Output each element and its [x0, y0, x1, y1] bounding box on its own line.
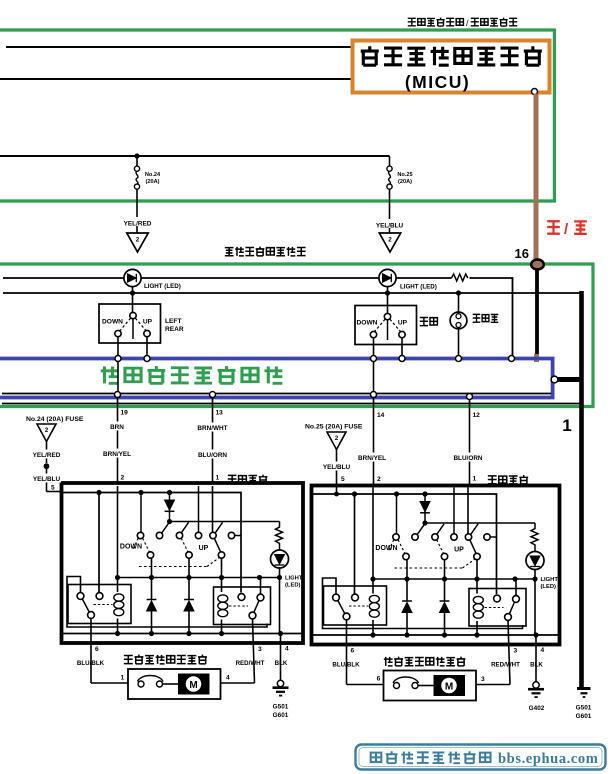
right-rear motor circuit breaker — [394, 683, 400, 689]
junction node at fuse No.24 — [134, 153, 139, 158]
svg-text:G601: G601 — [273, 712, 289, 719]
left-rear motor feed wire right — [221, 682, 255, 684]
left-rear UP relay NO contact — [238, 594, 245, 601]
svg-text:DOWN: DOWN — [357, 320, 378, 327]
svg-text:YEL/BLU: YEL/BLU — [376, 223, 404, 230]
wire 14 BRN/YEL — [373, 398, 375, 487]
left-rear switch contacts upper row — [137, 532, 143, 538]
right-rear relay feed wire — [354, 494, 356, 594]
left-rear DOWN contact — [115, 330, 121, 336]
svg-text:12: 12 — [473, 412, 481, 419]
left-rear ground wire BLK — [280, 644, 282, 681]
svg-text:1: 1 — [473, 476, 477, 483]
green box (under-dash fuse/relay box) top edge — [0, 28, 556, 31]
left-rear switch arm c2 — [162, 522, 170, 533]
right-rear switch name 右后开关 — [488, 476, 497, 484]
right-rear UP relay NC contact — [513, 596, 520, 603]
fuse/relay box label 仪表板下保险丝/继电器盒 — [408, 18, 416, 26]
left-rear motor symbol — [178, 674, 210, 695]
svg-text:6: 6 — [95, 646, 99, 653]
svg-text:LEFT: LEFT — [165, 318, 181, 325]
svg-text:6: 6 — [377, 676, 381, 683]
MICU box (orange) — [353, 41, 550, 93]
right-rear DOWN relay NC contact — [333, 594, 340, 601]
right-rear switch arm c2 — [417, 524, 425, 535]
right-rear bus junction (contact c1 feed) — [394, 491, 399, 496]
fuse No.24 (20A) — [136, 156, 138, 166]
wire 12 color BLU/ORN — [451, 453, 488, 462]
left-rear switch common contact — [130, 312, 136, 318]
left-rear internal supply bus — [62, 493, 242, 593]
right-rear pin1 wire to switch — [467, 488, 469, 534]
right-rear switch pole — [387, 320, 389, 340]
svg-text:UP: UP — [398, 320, 408, 327]
svg-text:RED/WHT: RED/WHT — [491, 662, 520, 669]
junction LED2/line B — [385, 290, 390, 295]
left-rear switch arm c5 to lower contact — [214, 538, 220, 552]
multiplex unit label 车门多路控制装置 (green) — [101, 367, 119, 384]
right-rear wire lower c1 to diode — [406, 560, 408, 601]
master switch green box top edge — [0, 262, 595, 265]
svg-text:(MICU): (MICU) — [405, 72, 470, 92]
svg-text:5: 5 — [341, 476, 345, 483]
right-rear UP contact — [399, 331, 405, 337]
left-rear switch name 左后开关 — [228, 475, 237, 483]
svg-text:13: 13 — [216, 410, 224, 417]
bus wire to MICU pin 1 (top) — [6, 46, 353, 48]
right-rear UP relay NC riser — [515, 579, 517, 596]
left-rear contact c4 riser — [198, 486, 200, 532]
right-rear DOWN relay linkage dash — [349, 605, 368, 607]
wire YEL/RED from fuse No.24 down to master switch connector — [136, 199, 138, 233]
wire 13 color BRN/WHT — [194, 423, 232, 432]
MICU pin (top-left lower) — [352, 76, 358, 82]
right-rear diode 2 — [440, 600, 450, 602]
svg-text:BRN/WHT: BRN/WHT — [197, 425, 227, 432]
black bus below multiplex bottom edge — [2, 403, 582, 405]
right-rear UP relay NO contact — [494, 595, 501, 602]
right-rear switch contacts lower row — [403, 553, 409, 559]
master switch label 电动车窗主控开关 — [225, 248, 234, 256]
brown highlighted wire from MICU pin 16 — [534, 94, 539, 262]
left-rear wire LED to lamp bus — [279, 568, 281, 578]
right-rear NC contact loop wire — [323, 578, 523, 629]
right-rear DOWN relay arm — [338, 600, 345, 613]
svg-text:BRN/YEL: BRN/YEL — [358, 455, 386, 462]
left-rear UP relay common contact — [249, 612, 256, 619]
right-rear motor feed wire right — [476, 684, 510, 686]
svg-text:LIGHT (LED): LIGHT (LED) — [400, 284, 437, 291]
right-rear contact c1 riser — [396, 494, 398, 534]
master switch green box right edge — [591, 264, 594, 407]
wire YEL/BLU from fuse No.25 down — [389, 199, 391, 233]
wire color label YEL/BLU — [374, 219, 405, 228]
multiplex bottom pin 13 — [210, 392, 216, 398]
svg-text:LIGHT: LIGHT — [285, 576, 303, 582]
left-rear switch pole — [132, 319, 134, 339]
wire left-rear UP contact to multiplex — [146, 337, 148, 356]
right-rear pin2 coil wire — [372, 488, 374, 578]
left-rear motor UP output wire (pin 3) — [253, 619, 255, 683]
svg-text:DOWN: DOWN — [375, 545, 397, 552]
right-rear DOWN contact — [370, 331, 376, 337]
svg-text:2: 2 — [121, 475, 125, 482]
left-rear switch throw dashes — [120, 318, 131, 330]
left-rear motor circuit breaker — [138, 681, 144, 687]
wire 13 color BLU/ORN — [195, 450, 232, 459]
svg-text:RED/WHT: RED/WHT — [236, 660, 265, 667]
left-rear UP contact — [144, 330, 150, 336]
right-rear switch stub c6 — [490, 536, 496, 538]
left-rear contact c1 riser — [140, 493, 142, 533]
left-rear wire lower c2 to diode — [188, 558, 190, 599]
watermark box bbs.ephua.com — [356, 745, 606, 770]
right-rear ground wire BLK — [535, 646, 537, 683]
svg-text:3: 3 — [514, 648, 518, 655]
svg-text:YEL/RED: YEL/RED — [33, 452, 61, 459]
right-rear UP relay common contact — [505, 614, 512, 621]
right-rear DOWN relay common contact — [343, 613, 350, 620]
left-rear fuse connector triangle 2 — [37, 424, 56, 442]
svg-text:G601: G601 — [576, 713, 592, 720]
MICU title 多路集成控制装置 — [361, 46, 379, 65]
multiplex top pin (line A) — [509, 356, 515, 362]
key switch 主开关 — [450, 312, 467, 329]
wire inside multiplex pin19 — [117, 362, 119, 395]
MICU pin 16 (bottom) — [532, 89, 538, 95]
junction LED1/line B — [130, 290, 135, 295]
resistor on bus line A — [452, 274, 468, 281]
svg-text:BRN/YEL: BRN/YEL — [103, 451, 131, 458]
svg-text:4: 4 — [285, 646, 289, 653]
multiplex top pin (right-rear DOWN) — [371, 356, 377, 362]
svg-text:UP: UP — [199, 545, 209, 552]
svg-text:1: 1 — [216, 475, 220, 482]
right-rear DOWN relay NO contact — [352, 594, 359, 601]
svg-text:BLU/ORN: BLU/ORN — [453, 455, 482, 462]
wire 19 color BRN/YEL — [101, 449, 134, 458]
LED2 indicator (right) — [379, 269, 396, 286]
wire color label YEL/RED — [122, 217, 152, 226]
svg-text:(LED): (LED) — [285, 583, 301, 589]
svg-text:2: 2 — [388, 237, 392, 244]
thick ground line ground symbol — [577, 687, 591, 690]
svg-text:5: 5 — [51, 485, 55, 492]
left-rear DOWN relay common contact — [88, 612, 95, 619]
right-rear lamp resistor — [531, 523, 538, 551]
right-rear wire lower c2 to diode — [444, 560, 446, 601]
svg-text:UP: UP — [454, 547, 464, 554]
right-rear motor symbol — [434, 675, 466, 696]
left-rear UP relay NC contact — [257, 594, 264, 601]
connector triangle 2 (left, YEL/RED) — [127, 233, 148, 252]
right-rear contact c4 riser — [453, 488, 455, 534]
svg-text:1: 1 — [562, 416, 571, 435]
svg-text:(20A): (20A) — [398, 179, 412, 185]
left-rear ground return bus — [63, 633, 301, 635]
right-rear motor DOWN output wire (pin 6) — [346, 620, 348, 685]
left-rear motor feed wire left — [91, 682, 128, 684]
left-rear switch arm c5 upper — [215, 522, 222, 533]
multiplex bottom pin 14 — [371, 392, 377, 398]
left-rear bus junction (diode feed) — [167, 490, 172, 495]
right-rear center link bus — [425, 522, 535, 524]
svg-text:LIGHT: LIGHT — [541, 577, 559, 583]
right-rear lamp return bus — [373, 578, 535, 580]
LED1 indicator (left) — [124, 269, 141, 286]
green box right edge — [553, 30, 556, 201]
right-rear switch common contact — [384, 313, 390, 319]
left-rear UP relay arm — [254, 601, 259, 613]
green box bottom edge — [0, 199, 556, 202]
left-rear DOWN relay NO contact — [96, 593, 103, 600]
wire line B to key switch — [458, 293, 460, 313]
bus wire to MICU pin 2 — [0, 78, 353, 80]
left-rear top diode — [169, 493, 171, 522]
svg-text:DOWN: DOWN — [120, 544, 142, 551]
thick wire from node 16 down to door multiplex unit — [535, 270, 539, 356]
node 16 splice — [531, 260, 544, 270]
svg-text:G501: G501 — [273, 704, 289, 711]
svg-text:YEL/RED: YEL/RED — [124, 221, 152, 228]
multiplex bottom pin 12 — [467, 394, 473, 400]
svg-text:2: 2 — [377, 476, 381, 483]
bus wire to fuses No.24/No.25 — [0, 155, 390, 157]
right-rear top diode — [424, 494, 426, 523]
multiplex bottom pin 19 — [115, 392, 121, 398]
multiplex top pin (key switch) — [456, 356, 462, 362]
connector triangle 2 (right, YEL/BLU) — [379, 233, 400, 252]
svg-text:REAR: REAR — [165, 326, 184, 333]
left-rear center link junction — [167, 519, 172, 524]
wire LED1 to left-rear switch — [132, 287, 134, 313]
svg-text:BRN: BRN — [110, 424, 124, 431]
left-rear ground bus junctions — [115, 631, 120, 636]
right-rear DOWN relay coil — [372, 581, 374, 594]
right-rear motor feed wire left — [347, 684, 384, 686]
right-rear switch box — [355, 306, 417, 345]
right-rear fuse connector triangle 2 — [327, 432, 346, 450]
right-rear motor ground symbol — [533, 682, 539, 688]
left-rear switch arm c3 — [181, 522, 188, 533]
left-rear UP relay linkage dash — [229, 605, 248, 607]
wire 14 color BRN/YEL — [355, 453, 391, 462]
svg-text:19: 19 — [121, 410, 129, 417]
left-rear switch stub c6 — [235, 535, 241, 537]
left-rear UP relay coil — [218, 595, 228, 602]
wire 12 BLU/ORN — [469, 400, 471, 487]
left-rear wire lower c1 to diode — [151, 558, 153, 599]
left-rear switch contacts lower row — [147, 552, 153, 558]
left-rear DOWN relay arm — [82, 599, 89, 612]
thick black jumper from multiplex to ground line — [557, 377, 584, 382]
right-rear diode 1 — [402, 600, 412, 602]
left-rear motor ground symbol — [277, 680, 283, 686]
svg-text:4: 4 — [541, 647, 545, 654]
svg-text:bbs.ephua.com: bbs.ephua.com — [498, 751, 598, 767]
left-rear feed entry — [47, 491, 62, 493]
right-rear ground return bus — [313, 634, 558, 636]
door multiplex control unit box (blue) — [0, 359, 553, 398]
wire inside multiplex pin14 — [373, 362, 375, 395]
left-rear window motor box — [128, 669, 221, 699]
right-rear UP relay arm — [509, 602, 514, 614]
svg-text:No.24: No.24 — [145, 172, 161, 178]
right-rear switch throw dashes — [375, 319, 386, 331]
MICU pin (top-left upper) — [352, 44, 358, 50]
right-rear UP relay linkage dash — [485, 607, 504, 609]
right-rear UP relay box — [469, 589, 526, 627]
left-rear lamp return bus — [118, 577, 280, 579]
right-rear window motor box — [384, 671, 477, 701]
svg-text:6: 6 — [351, 648, 355, 655]
left-rear switch box — [99, 304, 161, 343]
right-rear bus junction (diode feed) — [422, 491, 427, 496]
multiplex top pin (right-rear UP) — [399, 356, 405, 362]
left-rear switch linkage dashes — [143, 538, 150, 551]
right-rear switch arm c3 — [437, 524, 444, 535]
right-rear feed wire YEL/BLU — [336, 450, 338, 495]
watermark text 汽车维修技术论坛 — [371, 753, 382, 762]
left-rear feed splice — [44, 463, 50, 469]
svg-text:(20A): (20A) — [146, 179, 160, 185]
right-rear switch name 右后 — [420, 317, 428, 325]
brown stub at multiplex box edge — [534, 354, 539, 362]
right-rear wire lower c3 to relay coil — [476, 560, 478, 594]
left-rear UP relay NC riser — [260, 578, 262, 595]
right-rear motor UP output wire (pin 3) — [508, 620, 510, 684]
svg-text:LIGHT (LED): LIGHT (LED) — [144, 283, 181, 290]
right-rear center link junction — [422, 520, 427, 525]
left-rear relay feed wire — [98, 493, 100, 593]
right-rear wire LED to lamp bus — [534, 570, 536, 580]
svg-text:4: 4 — [226, 675, 230, 682]
right-rear switch contacts upper row — [393, 534, 399, 540]
left-rear DOWN relay coil — [117, 580, 119, 593]
wire right-rear DOWN contact to multiplex — [373, 338, 375, 357]
left-rear center link bus — [170, 521, 280, 523]
multiplex top pin (left-rear DOWN) — [115, 356, 121, 362]
left-rear feed wire YEL/BLU — [46, 468, 48, 492]
left-rear NC contact loop wire — [67, 577, 267, 628]
wire key switch to multiplex — [458, 329, 460, 357]
svg-text:(LED): (LED) — [541, 584, 557, 590]
right-rear LIGHT LED lamp — [526, 552, 544, 570]
svg-text:G402: G402 — [529, 705, 545, 712]
left-rear motor name 左后电动车窗电机 — [124, 655, 133, 663]
left-rear pin2 coil wire — [117, 486, 119, 576]
right-rear wire LED return to ground bus — [534, 579, 536, 635]
bus line B — [3, 292, 582, 294]
thick black ground line (right) — [579, 291, 584, 687]
black bus above multiplex bottom edge — [2, 393, 551, 395]
right-rear motor name 右后电动车窗电机 — [384, 657, 393, 666]
right-rear switch linkage dashes — [398, 540, 405, 553]
svg-text:1: 1 — [121, 675, 125, 682]
right-rear feed junction — [334, 492, 339, 497]
wire 19 color BRN — [104, 422, 131, 431]
left-rear DOWN relay box — [68, 585, 131, 624]
right-rear bus junction (relay feed) — [352, 491, 357, 496]
left-rear UP relay box — [214, 587, 271, 625]
left-rear feed wire YEL/RED — [46, 442, 48, 464]
left-rear LIGHT LED lamp — [271, 550, 289, 568]
left-rear switch unit box — [62, 483, 304, 643]
svg-text:BLU/BLK: BLU/BLK — [77, 660, 105, 667]
wire LED2 to right-rear switch — [387, 287, 389, 314]
left-rear wire lower c3 to relay coil — [221, 558, 223, 592]
svg-text:DOWN: DOWN — [102, 319, 123, 326]
svg-text:16: 16 — [515, 246, 529, 261]
left-rear pin1 wire to switch — [212, 486, 214, 532]
svg-text:BLU/BLK: BLU/BLK — [332, 662, 360, 669]
right-rear switch arm c5 upper — [471, 524, 478, 535]
svg-text:3: 3 — [481, 676, 485, 683]
wire color label 棕/红 (red) — [547, 221, 560, 234]
svg-text:14: 14 — [377, 412, 385, 419]
svg-text:No.24 (20A) FUSE: No.24 (20A) FUSE — [26, 416, 84, 423]
svg-text:G501: G501 — [576, 705, 592, 712]
svg-text:No.25 (20A) FUSE: No.25 (20A) FUSE — [305, 424, 363, 431]
key switch label 主开关 — [473, 314, 481, 322]
left-rear motor DOWN output wire (pin 6) — [90, 618, 92, 683]
left-rear diode 1 — [147, 599, 157, 601]
svg-text:YEL/BLU: YEL/BLU — [323, 464, 351, 471]
left-rear DOWN relay NC contact — [77, 593, 84, 600]
master switch green box bottom edge — [0, 405, 595, 408]
wire right-rear UP contact to multiplex — [401, 338, 403, 357]
wire 13 BRN/WHT — [212, 398, 214, 484]
left-rear diode 2 — [184, 599, 194, 601]
svg-text:UP: UP — [143, 319, 153, 326]
svg-text:M: M — [189, 680, 197, 691]
multiplex right edge pin — [551, 376, 558, 383]
svg-text:3: 3 — [258, 646, 262, 653]
left-rear wire LED return to ground bus — [279, 578, 281, 634]
key switch feed junction — [456, 290, 461, 295]
left-rear bus junction (contact c1 feed) — [138, 490, 143, 495]
left-rear bus junction (relay feed) — [96, 490, 101, 495]
fuse No.25 (20A) — [389, 156, 391, 166]
right-rear switch unit box — [312, 486, 560, 645]
left-rear DOWN relay linkage dash — [94, 604, 113, 606]
wire left-rear DOWN contact to multiplex — [117, 337, 119, 356]
left-rear lamp resistor — [276, 522, 283, 550]
svg-text:No.25: No.25 — [397, 172, 412, 178]
svg-text:BLU/ORN: BLU/ORN — [198, 452, 227, 459]
svg-text:YEL/BLU: YEL/BLU — [33, 476, 61, 483]
bus line A (LED supply) — [3, 278, 513, 357]
right-rear UP relay coil — [473, 596, 483, 603]
svg-text:M: M — [445, 681, 453, 692]
svg-text:2: 2 — [136, 237, 140, 244]
right-rear DOWN relay box — [324, 586, 387, 625]
multiplex top pin (left-rear UP) — [144, 356, 150, 362]
wire 19 BRN — [117, 398, 119, 484]
right-rear switch arm c5 to lower contact — [470, 540, 476, 554]
right-rear ground bus junctions — [370, 632, 375, 637]
right-rear internal supply bus — [313, 494, 497, 594]
